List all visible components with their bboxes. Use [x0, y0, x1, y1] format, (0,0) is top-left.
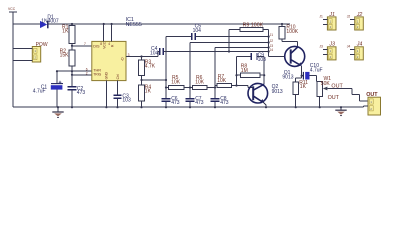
resistor R3 4.7K	[139, 57, 156, 76]
wire bottom ground rail	[13, 106, 368, 107]
svg-text:4.7uF: 4.7uF	[310, 68, 323, 74]
svg-text:VCC: VCC	[8, 7, 16, 11]
resistor R9 100K	[229, 22, 269, 51]
svg-text:J1: J1	[319, 15, 323, 19]
transistor Q1 9013	[282, 46, 304, 82]
svg-text:473: 473	[195, 100, 204, 106]
svg-text:1N4007: 1N4007	[41, 19, 59, 25]
resistor R11 1K	[293, 80, 308, 107]
wire B	[190, 42, 269, 44]
svg-text:2: 2	[86, 71, 88, 75]
svg-text:J4: J4	[347, 45, 351, 49]
wire wiper to OUT connector	[352, 89, 368, 102]
wire R1 to R2 and DIS pin 7	[72, 24, 92, 50]
node vertical 3	[214, 48, 216, 108]
power symbol VCC	[8, 7, 17, 12]
resistor R7 10K	[207, 74, 253, 88]
svg-text:J3: J3	[319, 45, 323, 49]
svg-text:473: 473	[171, 100, 180, 106]
svg-text:1K: 1K	[300, 84, 307, 90]
ground symbol left	[52, 107, 63, 117]
resistor R8 1M	[237, 64, 265, 78]
capacitor C2 473	[68, 86, 86, 107]
node bus to Q1 base	[269, 30, 285, 57]
svg-text:4: 4	[108, 42, 110, 46]
diode D1 1N4007	[40, 14, 59, 28]
capacitor C5 104 with wire A	[166, 23, 269, 40]
svg-text:DIS: DIS	[93, 44, 100, 48]
svg-text:7: 7	[84, 42, 86, 46]
svg-text:4.7K: 4.7K	[145, 64, 156, 70]
svg-text:1M: 1M	[241, 68, 248, 74]
svg-text:OUT: OUT	[331, 83, 343, 89]
capacitor C6 473	[162, 96, 180, 106]
svg-text:104: 104	[193, 28, 202, 34]
capacitor C4 104	[150, 46, 269, 56]
svg-text:J2: J2	[347, 15, 351, 19]
capacitor C3 103 on pin 5	[113, 81, 131, 108]
svg-text:50K: 50K	[321, 81, 331, 87]
capacitor C10 4.7uF electrolytic	[302, 63, 323, 81]
resistor R4 1K	[139, 76, 152, 108]
capacitor C8 473	[211, 96, 229, 106]
resistor R1 1K	[62, 24, 75, 43]
svg-text:473: 473	[77, 90, 86, 96]
svg-text:TRIG: TRIG	[93, 73, 101, 77]
svg-text:1K: 1K	[145, 89, 152, 95]
wire left VCC rail	[12, 12, 14, 107]
svg-text:103: 103	[258, 57, 267, 63]
svg-text:9013: 9013	[272, 89, 283, 95]
svg-text:1K: 1K	[62, 29, 69, 35]
wire R2 bottom to THR/TRIG and C2	[57, 66, 92, 87]
wire IC pin 8 and pin 4 to top rail	[104, 24, 112, 41]
svg-text:473: 473	[220, 100, 229, 106]
svg-text:104: 104	[150, 51, 159, 57]
svg-text:10K: 10K	[195, 79, 205, 85]
svg-text:VCC: VCC	[103, 41, 107, 49]
svg-text:4.7uF: 4.7uF	[33, 89, 46, 95]
node vertical 2	[189, 43, 191, 108]
svg-text:GND: GND	[105, 71, 109, 79]
wire top rail	[13, 23, 290, 25]
resistor R5 10K	[166, 75, 184, 89]
potentiometer W1 50K	[317, 76, 352, 107]
svg-text:103: 103	[122, 98, 131, 104]
op-amp U1 IC1 NE555 body	[84, 17, 142, 81]
connector J4	[347, 42, 364, 60]
svg-text:100K: 100K	[286, 29, 298, 35]
connector OUT	[366, 92, 380, 115]
capacitor C9 103 feedback	[237, 53, 267, 86]
svg-text:J4: J4	[270, 48, 274, 52]
connector J1	[319, 12, 336, 30]
svg-text:J2: J2	[270, 39, 274, 43]
svg-text:15K: 15K	[60, 53, 70, 59]
connector POW	[13, 42, 48, 62]
wire IC pin 1 GND to bottom rail	[105, 81, 107, 108]
svg-text:8: 8	[100, 42, 102, 46]
wire IC pin 3 output	[126, 56, 158, 58]
svg-text:OUT: OUT	[328, 95, 340, 101]
svg-text:9013: 9013	[282, 75, 293, 81]
svg-text:Q: Q	[121, 57, 124, 61]
capacitor C1 4.7uF electrolytic	[33, 81, 63, 107]
connector J2	[347, 12, 364, 30]
svg-text:J1: J1	[270, 33, 274, 37]
ground symbol right	[335, 107, 346, 115]
connector J3	[319, 42, 336, 60]
resistor R10 100K	[279, 24, 299, 47]
node vertical 1	[165, 37, 167, 108]
capacitor C7 473	[186, 96, 204, 106]
wire R3/R4 junction to ladder node A	[142, 79, 167, 81]
resistor R2 15K	[60, 49, 75, 66]
svg-text:10K: 10K	[217, 78, 227, 84]
wire C	[215, 47, 269, 49]
svg-text:NE555: NE555	[126, 22, 142, 28]
resistor R6 10K	[184, 75, 207, 89]
svg-text:10K: 10K	[171, 79, 181, 85]
svg-text:Ctrl: Ctrl	[116, 74, 120, 79]
transistor Q2 9013	[248, 83, 283, 107]
